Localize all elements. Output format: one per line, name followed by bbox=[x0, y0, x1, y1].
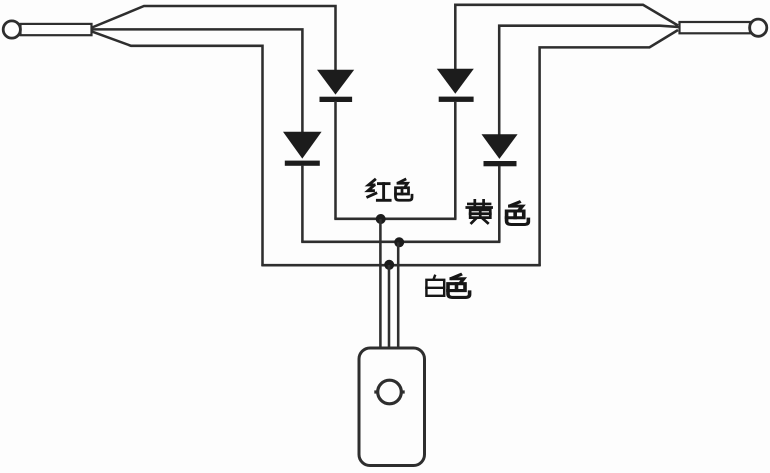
diode D3 bbox=[437, 69, 474, 102]
wire: yellow lead down to plug bbox=[397, 242, 400, 349]
wire: right top fan to D3 anode bbox=[455, 5, 678, 70]
label yellow 黄色 bbox=[467, 200, 529, 224]
node: white junction dot bbox=[384, 260, 394, 270]
connector jack circle bbox=[374, 380, 404, 404]
wire: right middle fan to D4 anode bbox=[499, 26, 678, 136]
node: yellow junction dot bbox=[394, 237, 404, 247]
connector plug body bbox=[359, 348, 425, 466]
wire: right bottom fan down to white bus bbox=[540, 30, 678, 266]
right antenna rod bbox=[680, 22, 751, 33]
wire: left top fan to D1 anode bbox=[92, 6, 336, 71]
wire: left middle fan to D2 anode bbox=[92, 29, 303, 133]
wire: D1 cathode to red bus bbox=[334, 101, 337, 220]
left antenna tip circle bbox=[3, 21, 20, 38]
diode D4 bbox=[482, 134, 518, 166]
diode D2 bbox=[283, 132, 322, 166]
label red 红色 bbox=[368, 180, 412, 201]
wire: red lead down to plug bbox=[379, 219, 382, 349]
wire: yellow bus bbox=[301, 241, 500, 244]
diode D1 bbox=[317, 70, 354, 102]
wire: white lead down to plug bbox=[388, 265, 391, 349]
label white 白色 bbox=[426, 275, 469, 298]
left antenna rod bbox=[21, 24, 92, 35]
wire: D3 cathode to red bus bbox=[454, 101, 457, 220]
wire: D2 cathode to yellow bus bbox=[301, 165, 304, 243]
wire: left bottom fan down to white bus bbox=[92, 32, 263, 266]
node: red junction dot bbox=[376, 214, 386, 224]
right antenna tip circle bbox=[750, 19, 767, 36]
wire: D4 cathode to yellow bus bbox=[498, 166, 501, 243]
wire: red bus bbox=[334, 218, 456, 221]
wire: white bus bbox=[261, 264, 540, 267]
